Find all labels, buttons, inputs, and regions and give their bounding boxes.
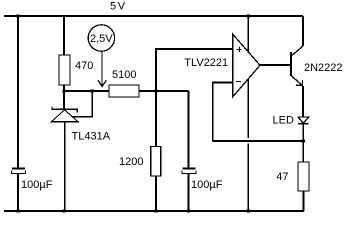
svg-text:LED: LED xyxy=(273,115,294,127)
wire op-amp V+ supply xyxy=(247,16,249,52)
svg-text:470: 470 xyxy=(75,60,93,72)
value label 100uF of C2 xyxy=(191,179,223,191)
svg-text:47: 47 xyxy=(276,171,288,183)
wire 2.5V node horizontal to R2 xyxy=(64,90,109,92)
wire feedback horizontal to LED cathode node xyxy=(213,140,304,142)
op-amp U2 triangle xyxy=(233,34,260,97)
wire LED cathode node to R4 xyxy=(302,141,304,162)
svg-text:TL431A: TL431A xyxy=(72,131,111,143)
svg-text:100µF: 100µF xyxy=(191,179,223,191)
svg-text:5100: 5100 xyxy=(112,69,136,81)
part label 2N2222 xyxy=(304,62,343,74)
node junction dot C2 to ground xyxy=(187,209,190,212)
svg-text:1200: 1200 xyxy=(119,156,143,168)
svg-text:100µF: 100µF xyxy=(21,179,53,191)
label 5V xyxy=(110,1,127,13)
node junction dot divider node xyxy=(154,89,157,92)
wire divider node down to R3 xyxy=(155,91,157,147)
resistor R1 470 xyxy=(59,55,70,109)
annotation arrow pointing to 2.5V node xyxy=(98,51,106,86)
resistor R3 1200 xyxy=(151,147,161,212)
wire feedback from minus input down xyxy=(213,83,233,142)
svg-text:2N2222: 2N2222 xyxy=(304,62,343,74)
capacitor C1 100uF xyxy=(12,168,26,211)
part label TL431A xyxy=(72,131,111,143)
svg-text:5V: 5V xyxy=(110,1,127,13)
node junction dot top-left xyxy=(16,14,19,17)
svg-text:TLV2221: TLV2221 xyxy=(184,57,228,69)
wire left branch from 5V rail down to C1 xyxy=(17,16,19,168)
wire from 5V rail down to R1 xyxy=(63,16,65,55)
resistor R2 5100 horizontal xyxy=(109,85,139,97)
node junction dot feedback at LED cathode node xyxy=(302,139,305,142)
node junction dot at R1/TL431 cathode node xyxy=(62,89,65,92)
svg-text:2,5V: 2,5V xyxy=(90,33,113,45)
wire 5V top rail xyxy=(4,15,303,17)
value label 47 of R4 xyxy=(276,171,288,183)
voltage annotation circle 2,5V xyxy=(88,25,114,51)
value label 1200 of R3 xyxy=(119,156,143,168)
node junction dot R3 to ground xyxy=(154,209,157,212)
node junction dot TL431 anode to ground xyxy=(62,209,65,212)
value label 100uF of C1 xyxy=(21,179,53,191)
op-amp minus input marking xyxy=(236,81,241,83)
node junction dot op-amp V- to ground xyxy=(247,209,250,212)
node junction dot C1 to ground rail xyxy=(16,209,19,212)
value label 5100 of R2 xyxy=(112,69,136,81)
transistor Q1 2N2222 xyxy=(291,16,303,116)
resistor R4 47 xyxy=(298,162,309,211)
shunt reference U1 TL431A xyxy=(51,91,92,211)
wire op-amp V- supply upper segment xyxy=(247,79,249,137)
wire C2 branch down xyxy=(188,91,190,168)
capacitor C2 100uF xyxy=(182,168,196,211)
op-amp plus input marking xyxy=(236,46,241,52)
diode LED D1 xyxy=(298,117,309,141)
wire op-amp V- supply lower segment after crossing gap xyxy=(247,144,249,211)
wire op-amp output to Q1 base xyxy=(260,64,291,66)
part label TLV2221 xyxy=(184,57,228,69)
node junction dot op-amp V+ supply at 5V rail xyxy=(247,14,250,17)
wire bottom ground rail xyxy=(4,210,304,212)
value label 470 of R1 xyxy=(75,60,93,72)
wire divider node up and to op-amp + input xyxy=(156,49,233,91)
wire from R2 to divider node and C2 branch xyxy=(139,90,189,92)
node junction dot TL431 ref tap xyxy=(91,89,94,92)
label LED xyxy=(273,115,294,127)
